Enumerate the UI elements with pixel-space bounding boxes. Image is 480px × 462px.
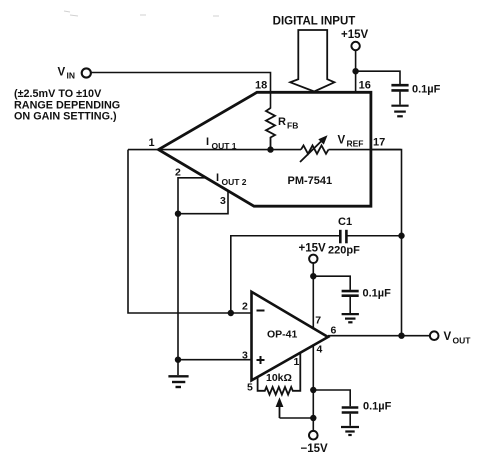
wire DAC pin3 bbox=[178, 191, 228, 214]
svg-text:R: R bbox=[278, 116, 286, 128]
capacitor 0.1uF (op-amp V+) bbox=[342, 290, 359, 293]
svg-text:RANGE DEPENDING: RANGE DEPENDING bbox=[14, 99, 120, 111]
svg-text:4: 4 bbox=[317, 344, 323, 356]
capacitor 0.1uF (top right) bbox=[391, 84, 408, 87]
node wiper junction bbox=[310, 415, 316, 421]
svg-text:FB: FB bbox=[287, 121, 298, 131]
node RFB junction bbox=[267, 146, 273, 152]
wire pin1 feedback to op-amp inverting input bbox=[128, 150, 252, 313]
svg-text:1: 1 bbox=[149, 137, 155, 149]
scan smudge marks bbox=[64, 11, 219, 16]
svg-text:3: 3 bbox=[220, 195, 226, 207]
svg-text:V: V bbox=[338, 135, 346, 147]
svg-text:2: 2 bbox=[175, 167, 181, 179]
svg-text:17: 17 bbox=[373, 137, 385, 149]
minus input sign bbox=[257, 310, 265, 312]
svg-text:−15V: −15V bbox=[301, 443, 329, 455]
svg-text:OUT: OUT bbox=[453, 336, 472, 346]
svg-text:0.1µF: 0.1µF bbox=[412, 84, 441, 96]
svg-text:DIGITAL INPUT: DIGITAL INPUT bbox=[273, 16, 356, 28]
wire DAC pin2 bbox=[178, 178, 206, 214]
digital input block arrow bbox=[290, 30, 334, 92]
ladder arrow bbox=[300, 141, 322, 163]
DAC U1 PM-7541 outline bbox=[159, 92, 371, 206]
op-amp U2 OP-41 bbox=[252, 292, 329, 381]
wire to bypass cap (op-amp V+) bbox=[313, 276, 350, 290]
resistor RFB bbox=[266, 108, 275, 150]
wire wiper to -15V line bbox=[280, 417, 314, 419]
wire supply to bypass cap bbox=[356, 71, 400, 84]
wire IOUT1 / VREF line bbox=[128, 149, 301, 151]
svg-text:IN: IN bbox=[67, 71, 76, 81]
svg-text:0.1µF: 0.1µF bbox=[363, 401, 392, 413]
terminal -15V bbox=[309, 431, 318, 440]
svg-text:7: 7 bbox=[315, 315, 321, 327]
node pin4 bypass junction bbox=[310, 387, 316, 393]
node feedback junction bbox=[398, 233, 404, 239]
ground (top right cap) bbox=[391, 106, 408, 117]
svg-text:OUT 2: OUT 2 bbox=[222, 177, 247, 187]
svg-text:PM-7541: PM-7541 bbox=[288, 175, 333, 187]
node ground junction bbox=[175, 357, 181, 363]
capacitor 0.1uF (op-amp V-) bbox=[342, 406, 359, 409]
resistor DAC ladder (variable) bbox=[301, 145, 329, 153]
svg-text:+15V: +15V bbox=[299, 243, 327, 255]
svg-text:I: I bbox=[206, 136, 209, 148]
wire VIN to pin 18 bbox=[91, 73, 271, 109]
wire pin18 into RFB bbox=[270, 92, 272, 109]
svg-text:18: 18 bbox=[255, 80, 267, 92]
svg-text:(±2.5mV TO ±10V: (±2.5mV TO ±10V bbox=[14, 88, 102, 100]
svg-text:16: 16 bbox=[359, 80, 371, 92]
wire junction down to ground node bbox=[177, 214, 179, 360]
svg-text:0.1µF: 0.1µF bbox=[363, 288, 392, 300]
node output junction bbox=[398, 333, 404, 339]
wire op-amp output bbox=[328, 335, 430, 337]
svg-text:220pF: 220pF bbox=[328, 245, 360, 257]
svg-text:I: I bbox=[216, 172, 219, 184]
svg-text:2: 2 bbox=[242, 301, 248, 313]
svg-text:6: 6 bbox=[331, 325, 337, 337]
wire feedback node down to output bbox=[401, 236, 403, 336]
svg-text:5: 5 bbox=[247, 382, 253, 394]
ground (op-amp V+ cap) bbox=[342, 314, 359, 322]
node pin7 bypass junction bbox=[310, 273, 316, 279]
capacitor C1 220pF bbox=[339, 230, 342, 244]
svg-text:REF: REF bbox=[347, 139, 364, 149]
wire +15V to pin 16 bbox=[355, 50, 357, 92]
terminal VOUT bbox=[430, 331, 439, 340]
wire to bypass cap (op-amp V-) bbox=[313, 390, 350, 406]
potentiometer 10k between pins 1 and 5 bbox=[258, 353, 301, 395]
svg-text:C1: C1 bbox=[338, 216, 352, 228]
svg-text:1: 1 bbox=[294, 356, 300, 368]
wire pin 4 to -15V bbox=[312, 344, 314, 431]
pot wiper arrow bbox=[279, 404, 281, 418]
svg-text:OP-41: OP-41 bbox=[267, 329, 298, 341]
ground (DAC analog ground) bbox=[168, 376, 188, 387]
svg-text:V: V bbox=[58, 67, 66, 79]
wire noninverting input to ground node bbox=[178, 359, 252, 361]
node inverting input junction bbox=[228, 310, 234, 316]
ground (op-amp V- cap) bbox=[341, 427, 359, 435]
svg-text:10kΩ: 10kΩ bbox=[266, 372, 292, 384]
node top supply junction bbox=[352, 68, 358, 74]
wire VREF pin17 to feedback node bbox=[371, 150, 402, 236]
wire to ground symbol bbox=[177, 360, 179, 375]
node pin2/3 junction bbox=[175, 211, 181, 217]
wire C1 to feedback node bbox=[346, 235, 401, 237]
plus input sign bbox=[257, 359, 265, 361]
svg-text:V: V bbox=[444, 331, 452, 343]
svg-text:ON GAIN SETTING.): ON GAIN SETTING.) bbox=[14, 111, 117, 123]
wire inverting node up to feedback line bbox=[231, 236, 340, 313]
svg-text:OUT 1: OUT 1 bbox=[212, 141, 237, 151]
wire pin 7 supply bbox=[312, 263, 314, 330]
svg-text:+15V: +15V bbox=[341, 29, 369, 41]
